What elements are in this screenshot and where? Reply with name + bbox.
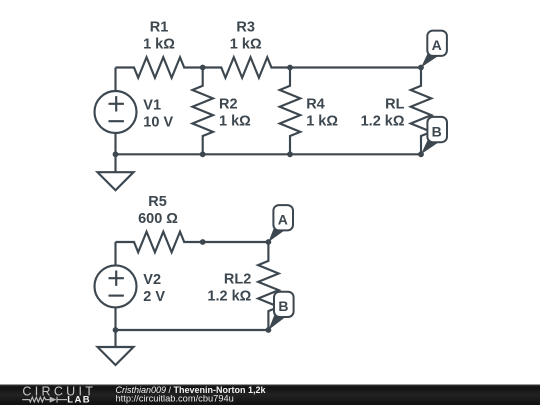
svg-text:2 V: 2 V — [143, 289, 165, 305]
wire bottom rail circuit2 — [116, 329, 269, 331]
resistor R2 — [192, 68, 213, 155]
resistor R4 — [280, 68, 301, 155]
svg-text:R2: R2 — [219, 96, 238, 112]
wire bottom rail circuit1 — [116, 153, 422, 155]
junction node B circuit1 — [418, 151, 424, 157]
svg-text:1.2 kΩ: 1.2 kΩ — [207, 289, 251, 305]
svg-text:1 kΩ: 1 kΩ — [143, 36, 175, 52]
svg-text:1 kΩ: 1 kΩ — [219, 113, 251, 129]
svg-text:1 kΩ: 1 kΩ — [306, 113, 338, 129]
svg-text:RL2: RL2 — [224, 272, 251, 288]
node flag A circuit2 — [268, 205, 293, 242]
junction node B circuit2 — [266, 327, 272, 333]
junction R4 bottom — [287, 151, 293, 157]
voltage source V2 — [95, 242, 137, 330]
wire top rail circuit2 (R5 right to node A) — [203, 241, 269, 243]
svg-text:R3: R3 — [236, 19, 255, 35]
resistor RL2 — [258, 242, 279, 330]
resistor RL — [411, 68, 432, 155]
svg-text:http://circuitlab.com/cbu794u: http://circuitlab.com/cbu794u — [116, 393, 234, 403]
resistor R3 — [203, 57, 290, 78]
junction V2 bottom — [113, 327, 119, 333]
junction R2 bottom — [200, 151, 206, 157]
node flag B circuit2 — [268, 292, 293, 330]
svg-text:B: B — [432, 123, 442, 139]
svg-text:1 kΩ: 1 kΩ — [230, 36, 262, 52]
resistor R5 — [116, 232, 203, 253]
ground circuit1 — [98, 154, 134, 190]
junction V1 bottom — [113, 151, 119, 157]
node flag A circuit1 — [421, 31, 447, 68]
svg-text:R1: R1 — [150, 19, 169, 35]
svg-text:A: A — [278, 212, 288, 228]
svg-text:R5: R5 — [148, 194, 167, 210]
logo resistor-diode squiggle — [22, 397, 67, 403]
node flag B circuit1 — [421, 117, 447, 154]
voltage source V1 — [95, 68, 137, 155]
svg-text:LAB: LAB — [67, 395, 91, 405]
junction node R3/R4 top — [287, 65, 293, 71]
svg-text:10 V: 10 V — [143, 115, 173, 131]
junction node R1/R2/R3 top — [200, 65, 206, 71]
junction R5 right circuit2 — [200, 239, 206, 245]
wire top rail circuit1 (node R3/R4 to node A) — [290, 66, 421, 68]
resistor R1 — [116, 57, 203, 78]
svg-text:1.2 kΩ: 1.2 kΩ — [361, 113, 405, 129]
svg-text:B: B — [278, 298, 288, 314]
svg-text:A: A — [432, 37, 442, 53]
junction node A circuit2 — [266, 239, 272, 245]
svg-text:R4: R4 — [306, 96, 325, 112]
junction node A circuit1 — [418, 65, 424, 71]
svg-text:RL: RL — [385, 96, 404, 112]
svg-text:V2: V2 — [143, 272, 161, 288]
svg-text:600 Ω: 600 Ω — [138, 211, 178, 227]
svg-text:V1: V1 — [143, 98, 161, 114]
ground circuit2 — [98, 330, 134, 365]
footer bar — [0, 384, 540, 405]
